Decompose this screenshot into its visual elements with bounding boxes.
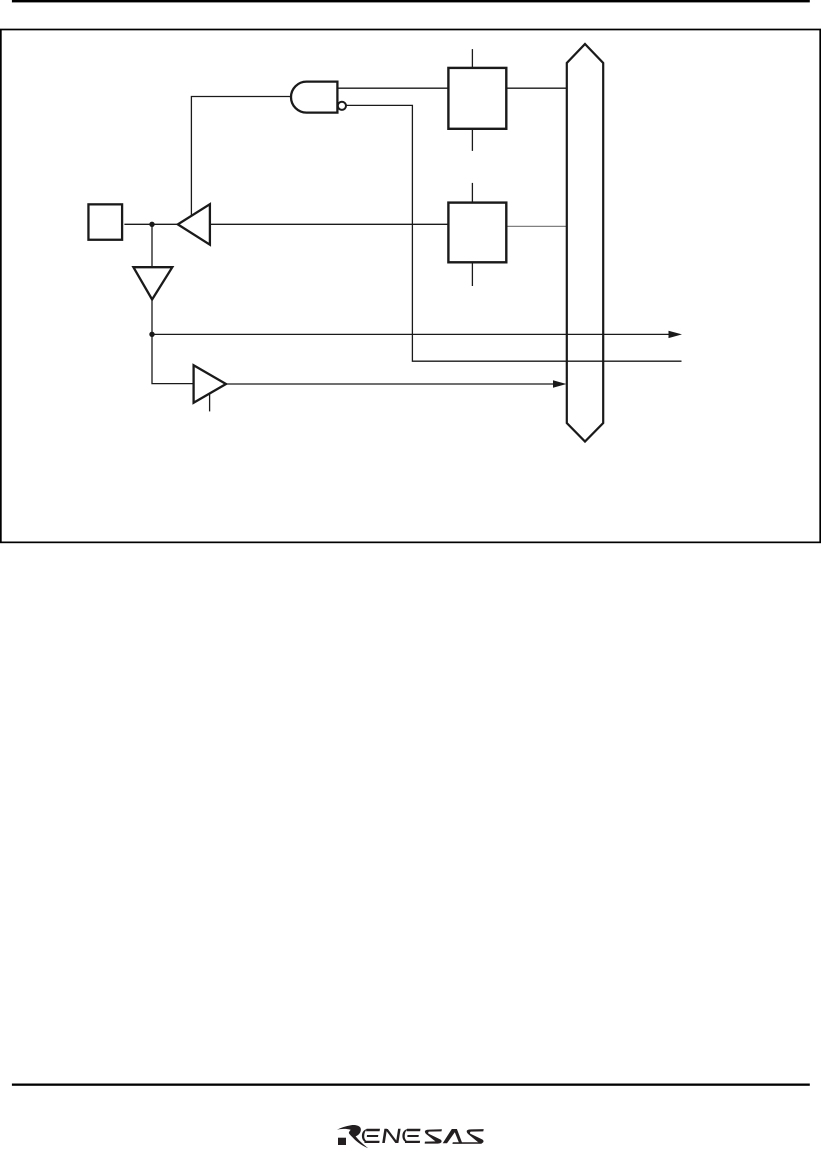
NAND gate U1 (mirrored, inputs right) (291, 82, 337, 113)
logo letter E2 bottom bar (405, 1141, 420, 1143)
register 1 top stub (471, 49, 473, 67)
logo letter A (443, 1129, 463, 1143)
wire NAND bubble input (right, down, right) (346, 105, 682, 361)
internal data bus (vertical hexagon) (567, 44, 603, 442)
node junction dot B (149, 332, 154, 337)
buffer G3 enable stub (209, 393, 211, 411)
logo letter N right stem (396, 1129, 401, 1143)
logo letter E2 top bar (407, 1129, 421, 1132)
wire pad to buffer G1 (124, 223, 179, 225)
buffer G3 (pointing right) (194, 365, 226, 403)
wire register 2 to bus (grey) (506, 225, 567, 227)
logo letter E1 bottom bar (364, 1141, 379, 1143)
wire buffer G3 output to bus (226, 383, 555, 385)
wire inverter output down and right to buffer G3 (152, 300, 194, 384)
logo letter N left stem (382, 1129, 387, 1143)
arrowhead of node B wire (669, 331, 683, 338)
arrowhead into bus (553, 380, 567, 387)
wire node B long arrow right (152, 333, 670, 335)
register 1 box (448, 68, 506, 129)
wire buffer G1 input from register 2 (210, 223, 449, 225)
logo letter E1 mid bar (367, 1135, 379, 1137)
wire NAND top input from register 1 (337, 87, 448, 89)
figure frame (1, 30, 820, 543)
register 2 box (448, 203, 506, 263)
node junction dot A (149, 222, 154, 227)
logo letter S2 (467, 1129, 484, 1144)
wire node A down to inverter (151, 224, 153, 267)
wire register 1 to bus (506, 87, 567, 89)
logo letter E2 left curve (402, 1129, 409, 1143)
wire NAND output to buffer G1 enable (191, 97, 291, 217)
Renesas logo (337, 1125, 484, 1148)
logo letter E1 top bar (366, 1129, 380, 1132)
logo letter E2 mid bar (407, 1135, 419, 1137)
logo letter N diagonal (385, 1129, 398, 1143)
logo letter S1 (425, 1129, 442, 1143)
footer rule (12, 1084, 810, 1086)
pad square P1 (88, 204, 122, 239)
register 2 bottom stub (471, 263, 473, 286)
buffer G1 (tristate output buffer, pointing left) (178, 204, 210, 245)
logo letter R (swoosh) (337, 1125, 368, 1148)
header rule (12, 0, 810, 2)
logo letter E1 left curve (362, 1129, 369, 1143)
inverter G2 (pointing down) (133, 267, 172, 299)
NAND inverted-input bubble (338, 102, 346, 110)
register 2 top stub (471, 183, 473, 202)
logo baseline bar under A and S2 (452, 1142, 482, 1144)
logo square dot (338, 1138, 346, 1145)
register 1 bottom stub (471, 130, 473, 151)
